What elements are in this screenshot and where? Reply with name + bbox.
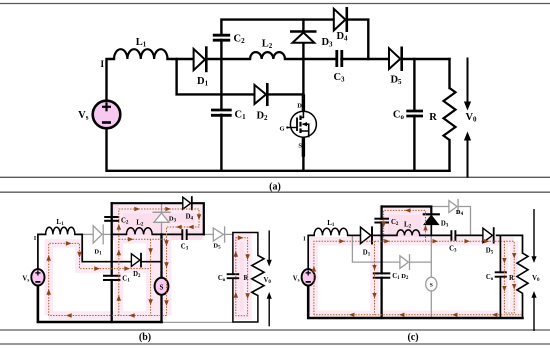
source Vs (b) (22, 269, 44, 285)
current path capacitor riser (b) (118, 209, 120, 316)
wire: L2 to C3 left, node3 (285, 58, 337, 60)
current path big loop (c) (314, 241, 522, 315)
source Vs (78, 101, 120, 129)
diode D4 (334, 7, 348, 43)
inductor L1 (b) (46, 227, 75, 234)
inductor L1 (114, 49, 168, 59)
wire: bottom rail (b) (38, 285, 162, 322)
wire: L2 to D3 node to C3 (c) (420, 234, 451, 236)
shaded path C1 riser (c) (370, 241, 379, 315)
resistor R (c) (509, 253, 528, 296)
wire: D5 cathode to R branch (c) (497, 235, 523, 253)
svg-text:S: S (160, 283, 164, 291)
capacitor C2 (213, 34, 245, 46)
wire: S source to bottom rail (b) (160, 295, 162, 322)
wire: C2 riser vertical (c) (380, 207, 382, 319)
resistor R (429, 88, 455, 140)
wire: C3 right to D4 drop (b) (187, 233, 204, 235)
diode D2 (b) (131, 253, 141, 279)
current arrows (b) (46, 207, 250, 318)
wire: R bottom to rail (c) (522, 296, 524, 318)
capacitor Co (b) (218, 274, 239, 283)
gray labels (b) (94, 215, 221, 256)
svg-text:S: S (430, 283, 433, 289)
capacitor C1 (b) (103, 275, 130, 283)
diode D3 (c) (423, 214, 449, 228)
inductor L2 (b) (126, 228, 152, 235)
current dashed paths (c) (314, 210, 522, 314)
shaded path big loop (c) (314, 241, 522, 315)
svg-text:(c): (c) (407, 332, 418, 343)
capacitor C1 (211, 110, 246, 122)
wire: D3 anode to main wire (c) (430, 225, 432, 236)
inductor L2 (c) (397, 230, 420, 236)
shaded path big loop (b) (49, 239, 167, 315)
wire: gray D4 node to D5 (b) (204, 233, 214, 235)
wire: D2 cathode to MOSFET drain vertical (269, 93, 304, 95)
wire: D4 cathode drop to C3 node (b) (193, 203, 204, 234)
wire: S drain vertical (b) (160, 234, 162, 277)
frame line below caption a (0, 191, 550, 193)
wire: L1 to D1 anode (168, 58, 194, 60)
wire: D5 cathode to R branch top (403, 58, 450, 60)
output voltage Vo arrows (c) (531, 209, 540, 331)
wire: C2 vertical to L2 (c) (382, 234, 397, 236)
wire: Co branch (c) (499, 235, 501, 272)
frame line below circuit a (0, 176, 550, 178)
wire: Co bottom to rail (413, 116, 415, 171)
shaded region top multiplier strip (b) (113, 205, 203, 241)
wire: D4 cathode to drop into C3-D5 node (349, 20, 369, 59)
capacitor C2 (b) (104, 217, 129, 226)
capacitor Co (393, 110, 423, 122)
wire: gray node1 vertical to D2 row (c) (352, 235, 400, 262)
svg-text:D: D (297, 103, 302, 110)
current path output loop (b) (236, 238, 248, 316)
capacitor Co (c) (486, 272, 507, 282)
svg-text:(b): (b) (139, 332, 151, 343)
wire: top rail from C2 to D4 (221, 20, 333, 36)
wire: C2 bottom through main wire to C1 top (220, 40, 222, 110)
wire: C3 right to D5 anode (c) (455, 234, 483, 236)
shaded region rail strip (c) (384, 211, 426, 240)
wire: Vs up to L1 (b) (38, 234, 46, 268)
diode D5 (389, 47, 402, 87)
wire: MOSFET source to bottom rail (302, 137, 305, 155)
capacitor C2 (c) (374, 219, 399, 227)
wire: C2 vertical riser (b) (111, 203, 113, 322)
svg-text:S: S (298, 143, 302, 150)
svg-text:G: G (279, 126, 284, 133)
diode D1 (194, 46, 209, 87)
switch S (c) open gray (426, 277, 437, 291)
current path rail loop (b) (119, 209, 199, 316)
capacitor C1 (c) (373, 273, 400, 281)
diode D2 (255, 83, 269, 122)
shaded region output block (b) (235, 235, 251, 320)
wire: C2 vertical to L2 (b) (112, 233, 127, 235)
wire: gray S drain vertical (c) (430, 235, 432, 277)
wire: D3 anode down to node3 and MOSFET drain (302, 43, 304, 96)
wire: Vs up to L1 (c) (308, 235, 314, 269)
wire: node1 down to D2 row (b) (82, 234, 131, 261)
wire: gray segment node1 to D1 (b) (82, 233, 94, 235)
diode D3 (b) gray (161, 203, 163, 212)
wire: gray D5 cathode to output block (b) (226, 233, 233, 235)
capacitor C3 (333, 50, 345, 84)
diode D4 (b) (183, 196, 194, 221)
svg-text:(a): (a) (269, 182, 281, 193)
wire: C1 bottom to ground rail (220, 115, 222, 171)
wire: R bottom to rail (448, 140, 450, 171)
wire: gray rail extension to D4 (c) (431, 206, 449, 208)
current path L2 feed (b) (119, 238, 167, 240)
wire: D3 cathode stub to top rail (302, 20, 304, 32)
svg-text:R: R (429, 112, 437, 123)
shaded path output loop (b) (236, 238, 248, 316)
wire: D1 cathode to C2 vertical (c) (372, 234, 382, 236)
wire: gray S source to bottom rail (c) (430, 291, 432, 318)
diode D1 (c) (361, 226, 373, 257)
wire: D2 cathode to S drain vertical (b) (141, 261, 162, 263)
switch S (b) closed (155, 278, 169, 295)
svg-text:R: R (509, 275, 514, 282)
inductor L2 (250, 52, 285, 59)
wire: L2 to node3 to C3 (b) (152, 233, 182, 235)
wire: top rail to D4 (b) (112, 202, 183, 204)
shaded path capacitor riser (b) (115, 209, 124, 316)
frame bottom border (0, 343, 550, 345)
wire: gray D1 cathode to C2 vertical (b) (104, 233, 112, 235)
inductor L1 (c) (314, 228, 348, 235)
current path rail loop (c) (384, 210, 426, 240)
wire: gray D4 cathode drop to main wire (c) (459, 207, 470, 236)
wire: L1 to D1 anode (c) (348, 234, 361, 236)
shaded path rail loop (b) (119, 209, 199, 316)
current path output loop (c) (504, 241, 514, 313)
wire: D1 cathode to L2 with C2 branch crossing (207, 58, 251, 60)
wire: L1 to node1 to D1 (b) (75, 233, 82, 235)
wire: R branch top (448, 59, 450, 88)
diode D1 (b) gray (93, 226, 102, 243)
current path big loop (b) (49, 239, 167, 315)
wire: Co branch vertical (413, 59, 415, 111)
diode D5 (b) gray (213, 228, 223, 241)
wire: gray D2 cathode to S vertical (c) (411, 261, 432, 263)
diode D4 (c) gray (449, 201, 457, 213)
source Vs (c) (293, 269, 315, 285)
wire: MOSFET source to rail lower (302, 155, 304, 171)
current arrows (c) (312, 208, 517, 317)
wire: top rail to D3 (c) (382, 207, 432, 215)
capacitor C3 (c) (449, 230, 457, 253)
wire: C3 right to D5 anode (342, 58, 390, 60)
transistor S (MOSFET) (279, 103, 316, 150)
shaded path rail loop (c) (384, 210, 426, 240)
wire: MOSFET drain stub (302, 96, 305, 111)
svg-text:I: I (100, 59, 104, 69)
resistor R (b) (244, 255, 264, 295)
shaded path output loop (c) (504, 241, 514, 313)
frame line above captions b c (0, 329, 550, 331)
diode D2 (c) gray (400, 256, 409, 269)
wire: bottom ground rail (107, 129, 450, 171)
diode D3 (290, 32, 333, 49)
shaded path L2 feed (b) (119, 235, 167, 244)
wire: output block rectangle (b) (233, 233, 258, 323)
output voltage Vo arrows (b) (263, 230, 271, 326)
wire: gray ground link to output block (b) (162, 321, 233, 323)
output voltage Vo arrows (464, 58, 477, 178)
svg-text:R: R (244, 275, 249, 282)
shaded region switch bundle (b) (146, 241, 172, 316)
frame top border (0, 3, 550, 5)
wire: bottom rail (c) (308, 285, 522, 318)
diode D5 (c) (483, 227, 494, 255)
wire: node1 down and right to D2 anode (177, 59, 255, 94)
wire: Co bottom to rail (c) (499, 277, 501, 318)
current path C1 riser (c) (374, 241, 376, 315)
capacitor C3 (b) (181, 229, 189, 251)
current dashed paths (b) (49, 209, 248, 316)
wire: input vertical from Vs to L1 (107, 59, 115, 101)
